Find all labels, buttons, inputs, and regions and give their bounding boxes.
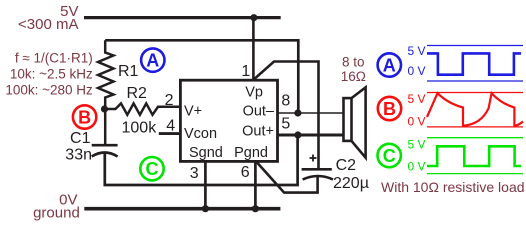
svg-text:3: 3 [190,165,199,182]
svg-text:C: C [146,159,159,179]
svg-text:5 V: 5 V [407,92,425,106]
svg-text:R1: R1 [118,63,139,80]
svg-text:With 10Ω resistive load: With 10Ω resistive load [381,179,525,195]
svg-text:100k: ~280 Hz: 100k: ~280 Hz [5,83,93,98]
svg-text:10k: ~2.5 kHz: 10k: ~2.5 kHz [10,66,93,81]
svg-text:16Ω: 16Ω [341,69,366,84]
svg-text:<300 mA: <300 mA [18,16,78,33]
svg-text:1: 1 [241,63,250,80]
svg-text:4: 4 [166,117,175,134]
svg-text:100k: 100k [122,120,158,137]
svg-text:8 to: 8 to [342,55,365,70]
svg-text:B: B [383,99,396,119]
svg-text:C1: C1 [70,130,91,147]
svg-text:0 V: 0 V [407,160,425,174]
svg-text:5: 5 [281,116,290,133]
svg-text:5 V: 5 V [407,44,425,58]
svg-text:2: 2 [165,92,174,109]
svg-text:Pgnd: Pgnd [234,145,268,161]
svg-text:Vcon: Vcon [184,126,217,142]
svg-text:B: B [78,107,91,127]
svg-text:Sgnd: Sgnd [189,145,223,161]
svg-text:C2: C2 [336,157,357,174]
svg-text:C: C [383,146,396,166]
svg-text:Vp: Vp [245,85,263,101]
svg-text:0 V: 0 V [407,115,425,129]
svg-text:6: 6 [241,164,250,181]
svg-text:V+: V+ [184,103,202,119]
svg-text:8: 8 [281,93,290,110]
svg-text:0 V: 0 V [407,64,425,78]
svg-text:33n: 33n [65,147,92,164]
svg-text:A: A [146,50,159,70]
svg-text:Out+: Out+ [242,124,274,140]
svg-text:R2: R2 [127,85,148,102]
svg-text:ground: ground [33,205,80,222]
svg-text:220µ: 220µ [333,175,369,192]
svg-text:Out–: Out– [243,103,275,119]
svg-text:A: A [383,55,396,75]
svg-text:5 V: 5 V [407,138,425,152]
svg-text:f ≈ 1/(C1·R1): f ≈ 1/(C1·R1) [15,50,93,65]
